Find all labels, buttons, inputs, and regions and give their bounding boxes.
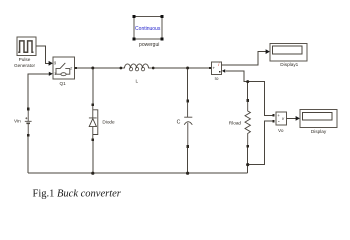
port dot diode top	[92, 104, 94, 107]
switch block Q1	[53, 57, 75, 79]
port dot Vo plus	[272, 114, 274, 116]
wire diode branch down	[92, 69, 94, 104]
port dot capacitor bottom	[186, 145, 188, 148]
wire Rload to bottom rail corner	[247, 148, 249, 174]
wire Io right terminal to node B	[226, 71, 273, 116]
svg-text:+: +	[277, 113, 280, 118]
wire inductor to Io	[154, 67, 209, 69]
svg-text:1: 1	[54, 72, 56, 76]
junction diode tap	[91, 67, 94, 70]
svg-text:g: g	[54, 61, 56, 65]
inductor L	[122, 64, 152, 71]
display block Display1	[270, 44, 307, 62]
wire Io signal to Display1	[222, 52, 267, 66]
port dot Rload bottom	[247, 145, 249, 148]
port dot Vo minus	[272, 120, 274, 122]
wire capacitor branch down	[187, 69, 189, 100]
wire bottom rail	[28, 172, 248, 174]
wire Pulse Generator to Q1 gate	[36, 46, 49, 64]
svg-text:L: L	[135, 78, 138, 83]
port dot Io input	[209, 67, 211, 69]
powergui block	[133, 15, 164, 40]
wire Vin plus to Q1 port1	[28, 74, 49, 108]
wire capacitor to bottom rail	[187, 148, 189, 174]
svg-text:i: i	[218, 62, 220, 68]
svg-text:Diode: Diode	[102, 119, 115, 124]
junction diode bottom	[91, 172, 94, 175]
arrowhead into Q1 port1	[49, 72, 53, 76]
inductor terminal dot left	[120, 67, 123, 70]
wire Q1 output to inductor L	[77, 67, 120, 69]
port dot capacitor top	[186, 100, 188, 103]
port dot Rload top	[247, 99, 249, 102]
wire Vin to bottom rail	[27, 136, 29, 173]
port dot Vin bottom	[27, 134, 29, 137]
current measurement block Io	[211, 62, 221, 75]
port dot Q1 output	[75, 67, 77, 69]
junction capacitor bottom	[186, 172, 189, 175]
svg-text:Continuous: Continuous	[135, 26, 161, 32]
label Pulse Generator	[14, 57, 36, 68]
svg-text:2: 2	[70, 66, 72, 70]
svg-text:Generator: Generator	[14, 63, 36, 68]
svg-text:Display: Display	[311, 129, 327, 134]
DC source Vin	[25, 110, 32, 134]
inductor terminal dot right	[152, 67, 155, 70]
svg-text:Fig.1 Buck converter: Fig.1 Buck converter	[33, 189, 122, 200]
svg-text:C: C	[177, 120, 181, 126]
svg-text:Rload: Rload	[229, 121, 242, 126]
diode D	[89, 106, 98, 139]
svg-text:Display1: Display1	[280, 62, 298, 67]
wire Vo output to Display	[286, 117, 296, 119]
voltage measurement block Vo	[276, 112, 286, 125]
port dot diode bottom	[92, 139, 94, 142]
arrowhead into Io right terminal	[222, 69, 225, 73]
wire diode to bottom rail	[92, 141, 94, 173]
svg-text:Io: Io	[215, 76, 219, 81]
wire Rload branch down	[247, 83, 249, 100]
arrowhead into Display	[296, 116, 300, 121]
wire Vo minus to bottom rail	[249, 121, 273, 164]
capacitor C	[184, 102, 192, 145]
junction Rload tap	[246, 80, 249, 83]
svg-text:+: +	[213, 66, 216, 71]
junction capacitor tap	[186, 67, 189, 70]
junction Vo minus tap	[246, 163, 249, 166]
svg-text:powergui: powergui	[139, 42, 159, 48]
resistor Rload	[245, 102, 250, 146]
arrowhead into Q1 gate	[49, 61, 53, 66]
display block Display	[300, 110, 337, 128]
svg-text:v: v	[282, 116, 285, 121]
port dot Vin top	[27, 108, 29, 111]
svg-text:Pulse: Pulse	[19, 57, 31, 62]
svg-text:Q1: Q1	[59, 81, 66, 86]
svg-text:Vin: Vin	[14, 119, 21, 124]
block Pulse Generator	[17, 37, 36, 56]
svg-text:Vo: Vo	[278, 128, 284, 133]
arrowhead into Display1	[266, 49, 270, 54]
